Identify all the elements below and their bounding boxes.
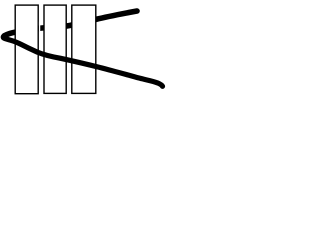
wire W1 front segment of loop (left hook and diagonal over the bars to bottom right) [3,36,162,87]
bar B2 (middle core bar) [44,5,66,93]
bar B3 (right core bar) [72,5,96,93]
bar B1 (left core bar) [15,5,38,94]
white nick in gap 1 (rear wire not visible at far left of gap) [39,22,40,32]
wire W1 rear segment of loop (passes behind bars, visible right of bar 3, in gaps, and left of bar 1) [4,11,137,36]
